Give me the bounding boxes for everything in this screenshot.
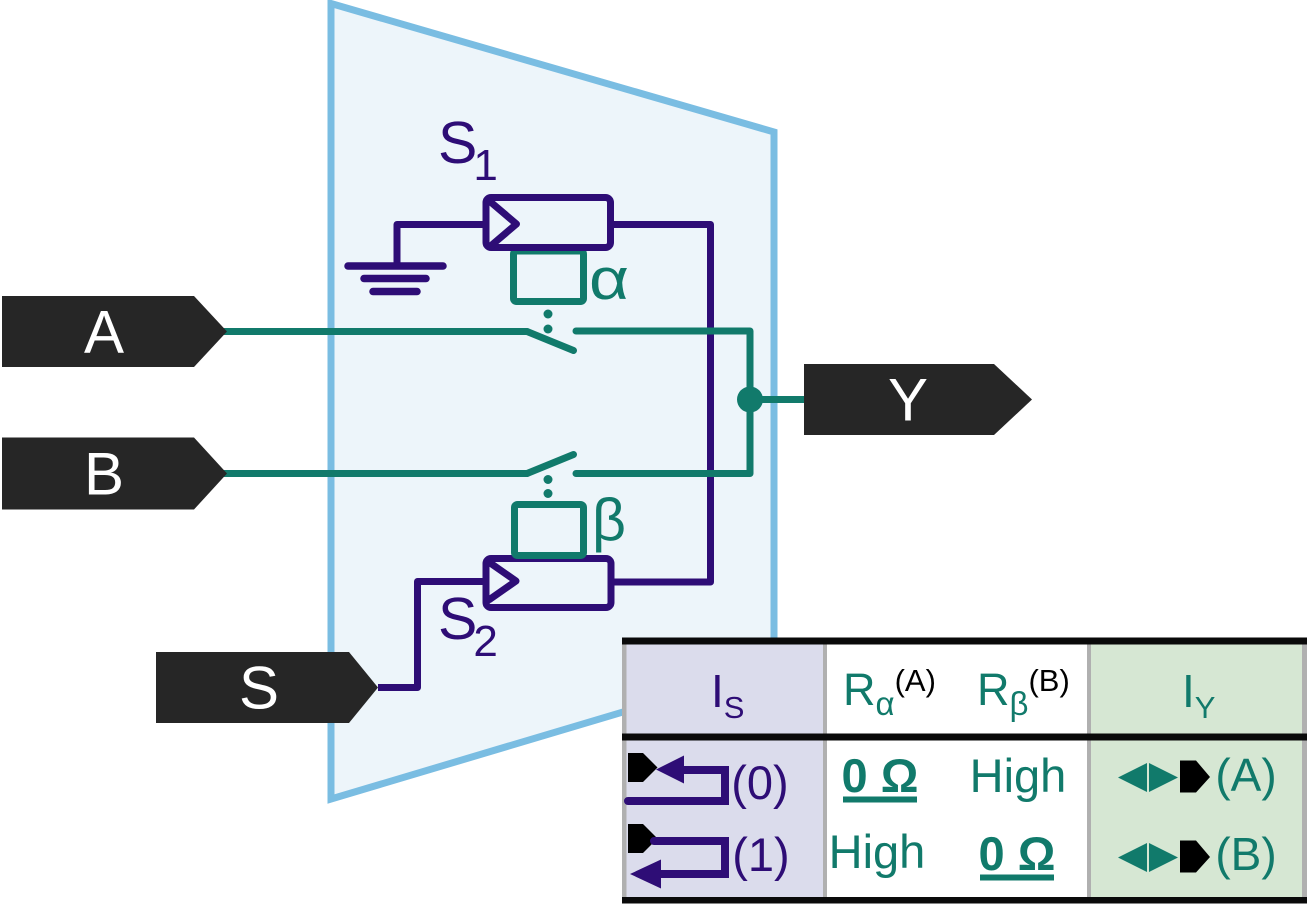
svg-text:0 Ω: 0 Ω bbox=[979, 827, 1056, 880]
port tag A bbox=[2, 296, 227, 367]
switch alpha blade bbox=[527, 332, 574, 351]
svg-text:α: α bbox=[589, 247, 629, 312]
row1 Y icon: tag bbox=[1180, 761, 1210, 793]
ground bbox=[348, 266, 443, 292]
wire: S1 output down to S2 output bbox=[609, 225, 711, 583]
row2 S-input icon: arrow out of tag bbox=[654, 841, 725, 874]
wire: input B bbox=[215, 470, 527, 477]
port tag B bbox=[2, 438, 227, 510]
table bottom rule bbox=[622, 897, 1307, 904]
svg-text:(1): (1) bbox=[732, 828, 789, 881]
wire: S input to buffer S2 bbox=[378, 582, 487, 688]
linkage dots beta bbox=[544, 475, 553, 484]
svg-text:High: High bbox=[970, 749, 1067, 802]
wire: input A bbox=[215, 328, 527, 335]
row1 Y icon: bidirectional arrow bbox=[1118, 763, 1147, 792]
buffer S1 bbox=[486, 198, 611, 248]
truth table background columns bbox=[622, 644, 1307, 897]
row2 Y icon: bidirectional arrow bbox=[1118, 843, 1147, 872]
table top rule bbox=[622, 638, 1307, 645]
svg-text:0 Ω: 0 Ω bbox=[842, 749, 919, 802]
row2 Y icon: tag bbox=[1180, 841, 1210, 873]
buffer S2 bbox=[486, 559, 611, 608]
wire: switch outputs to Y bus bbox=[576, 331, 750, 474]
linkage dots alpha bbox=[544, 310, 553, 319]
row1 S-input icon: arrow into tag bbox=[628, 770, 725, 801]
wire: S1 input to ground bbox=[397, 225, 487, 264]
junction node bbox=[737, 387, 763, 413]
actuator coil alpha bbox=[514, 251, 584, 302]
port tag Y bbox=[804, 364, 1032, 435]
svg-text:(B): (B) bbox=[1215, 828, 1276, 880]
wire: stub to Y bbox=[750, 396, 812, 403]
svg-text:β: β bbox=[592, 487, 626, 553]
switch beta blade bbox=[527, 455, 574, 474]
chip plane outline bbox=[331, 4, 774, 800]
row2 S-input icon: tag bbox=[628, 824, 658, 853]
svg-text:S: S bbox=[239, 655, 279, 722]
svg-text:(0): (0) bbox=[731, 756, 788, 809]
port tag S bbox=[156, 652, 378, 723]
svg-text:Y: Y bbox=[888, 367, 928, 434]
actuator coil beta bbox=[515, 505, 584, 556]
svg-text:A: A bbox=[84, 299, 124, 366]
row1 S-input icon: tag bbox=[628, 753, 658, 782]
svg-text:High: High bbox=[829, 825, 926, 878]
svg-text:(A): (A) bbox=[1215, 749, 1276, 801]
svg-text:B: B bbox=[84, 441, 124, 508]
table header rule bbox=[622, 734, 1307, 741]
